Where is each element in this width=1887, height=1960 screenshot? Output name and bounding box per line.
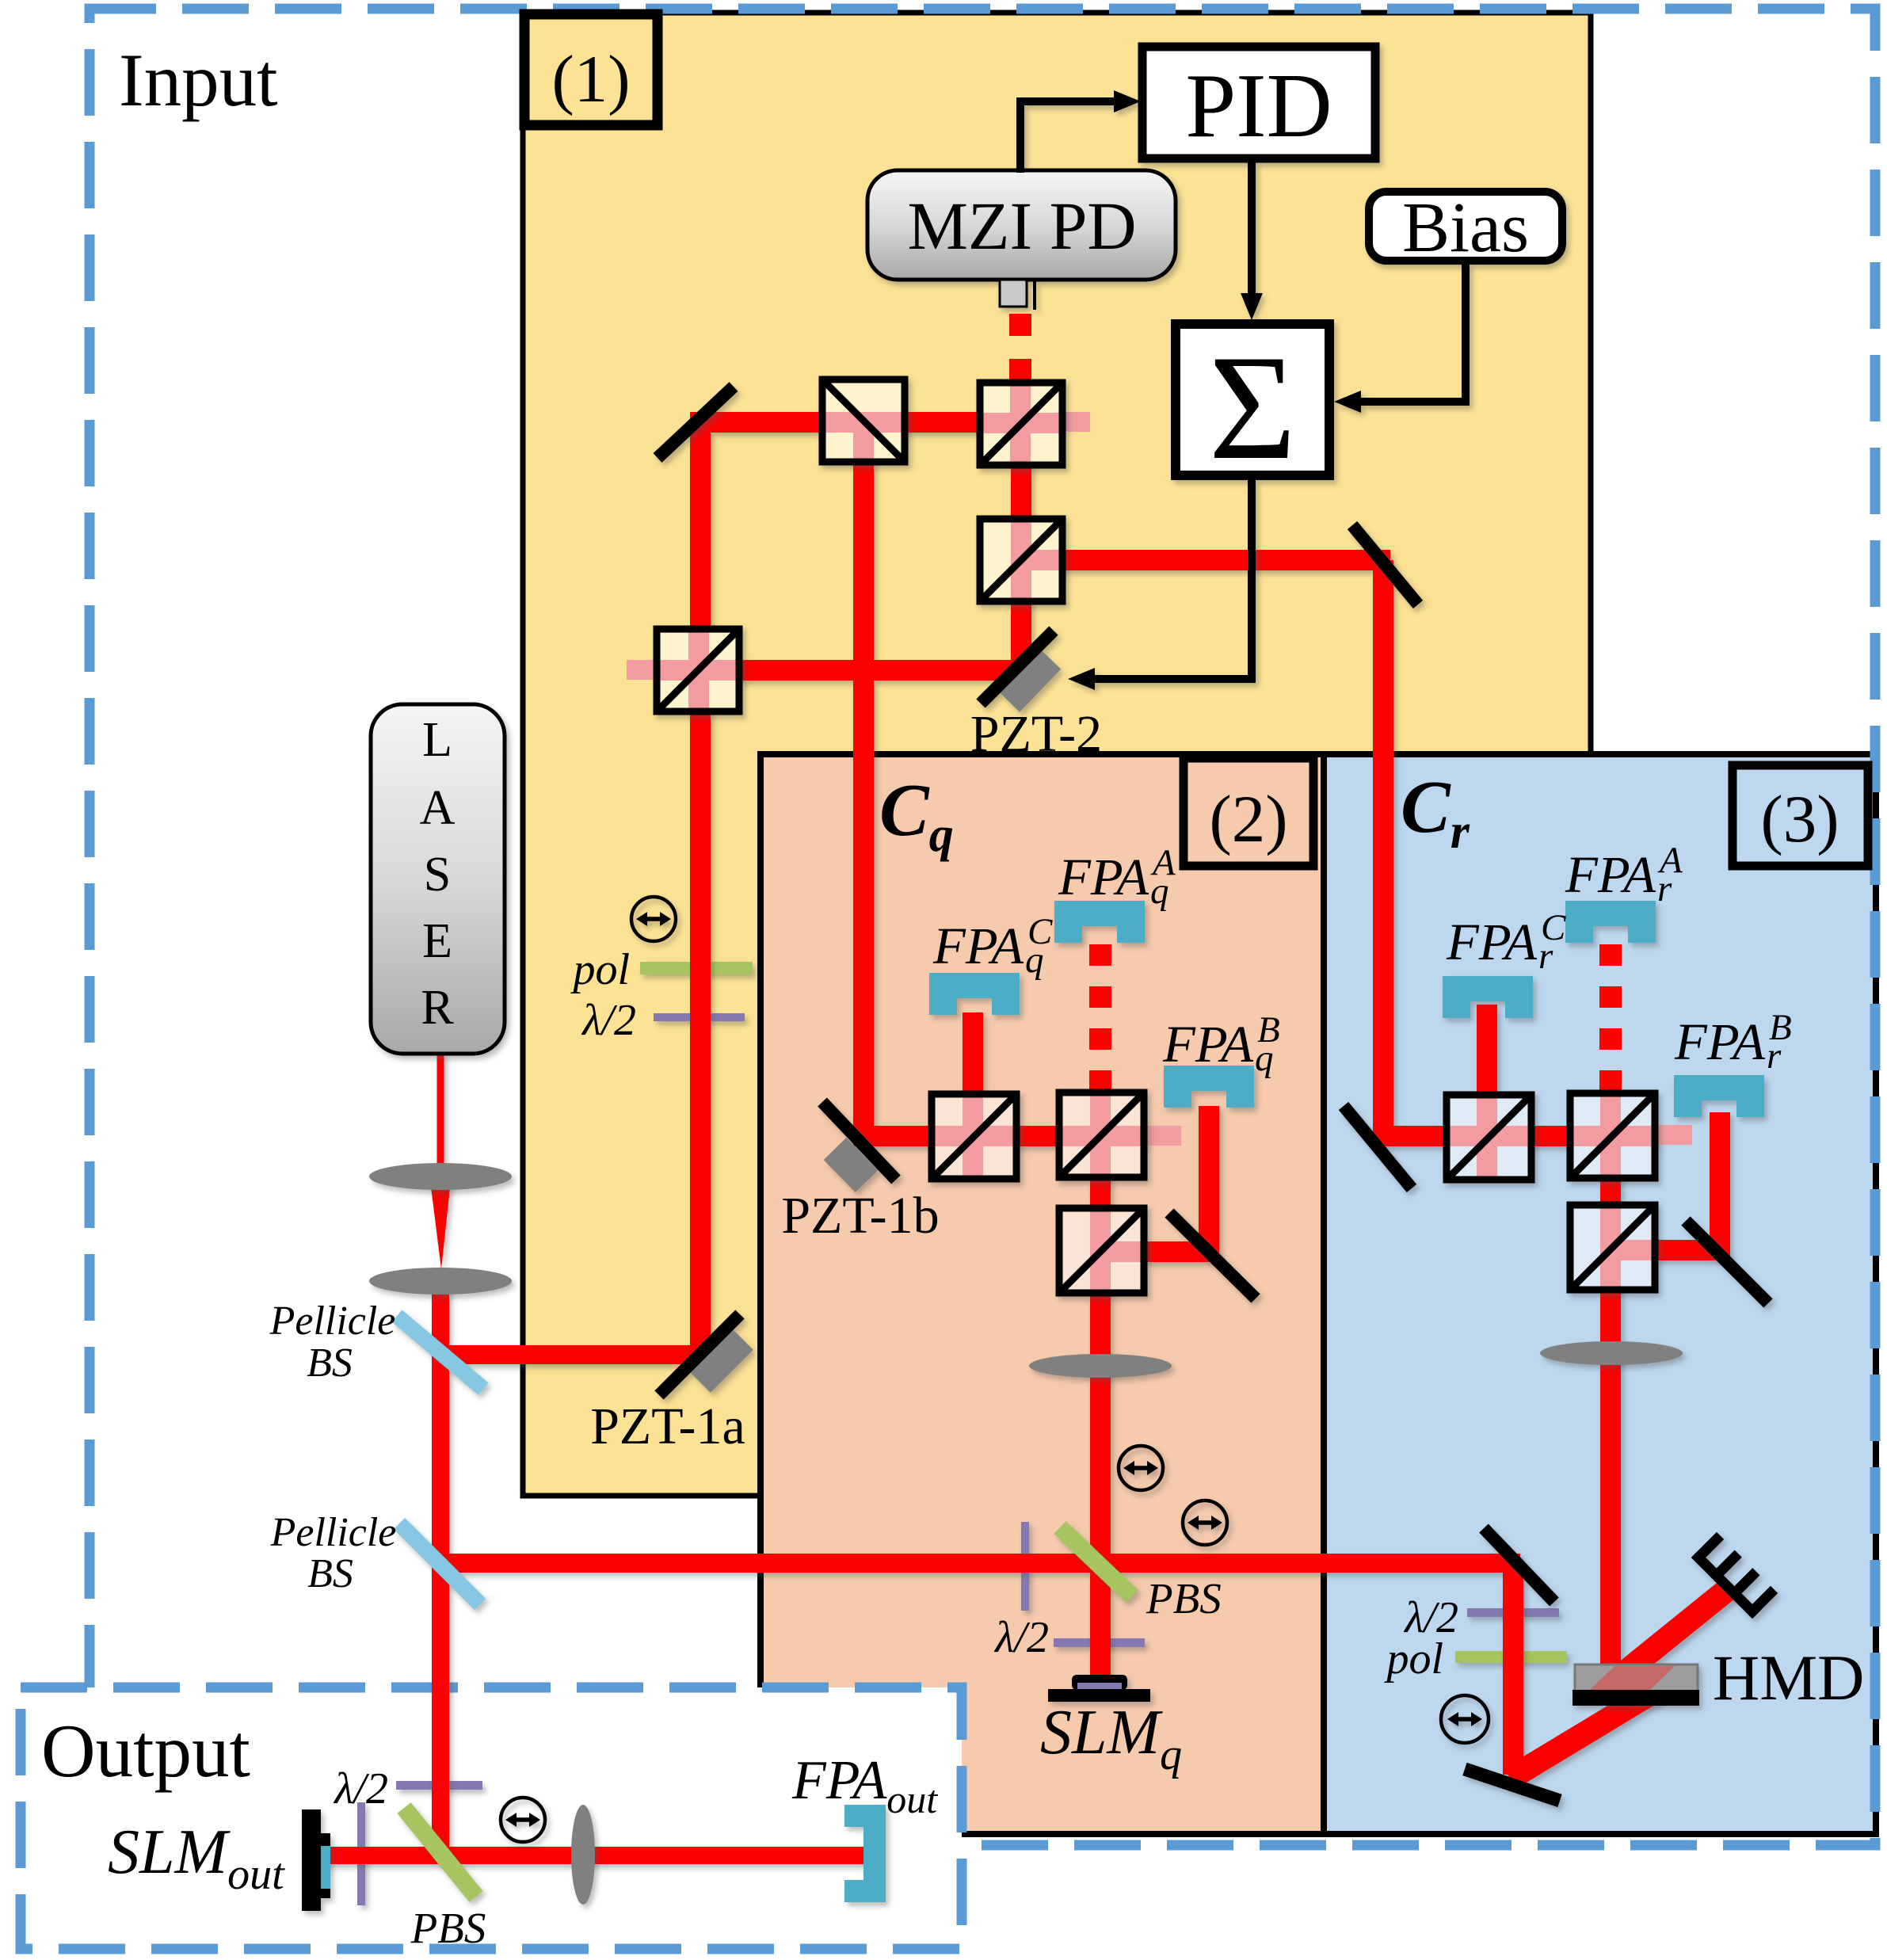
FPA_q^A detector — [1054, 901, 1145, 943]
beamsplitter cube BS2 body — [980, 383, 1062, 465]
polarizer pol (region 1) — [640, 962, 753, 974]
beam mirror M1 to BS2 horizontal — [696, 412, 1030, 433]
half-wave plate λ/2 vertical (region 2) — [1021, 1522, 1029, 1611]
half-wave plate λ/2 horizontal (output) — [396, 1781, 482, 1790]
FPA_r^B detector — [1674, 1075, 1764, 1117]
beam mirror Mq to BS_q3 — [1143, 1241, 1217, 1262]
FPA_out detector — [844, 1805, 886, 1902]
beam bottom mirror to HMD diagonal — [1510, 1687, 1662, 1779]
svg-text:(3): (3) — [1760, 782, 1839, 856]
Output white box — [21, 1687, 962, 1949]
svg-text:FPA: FPA — [1565, 846, 1656, 904]
beamsplitter cube BS_r3 body — [1570, 1205, 1655, 1290]
mirror M1 (region 1 top-left) — [658, 387, 734, 458]
polarization symbol (output) — [501, 1798, 545, 1842]
svg-text:PZT-1a: PZT-1a — [590, 1398, 745, 1455]
pink beam inside BS2 — [980, 413, 1062, 433]
beam mirror Mr to BS_r3 — [1654, 1240, 1728, 1260]
lens output — [571, 1805, 595, 1905]
region (3) blue background — [1324, 754, 1876, 1834]
pink beam inside BS_r1 — [1477, 1095, 1497, 1180]
svg-text:(2): (2) — [1209, 782, 1287, 856]
dashed beam FPA_rA to BS_r2 — [1599, 944, 1622, 1093]
pink beam inside BS1 — [853, 421, 874, 462]
wire Bias to Sigma — [1359, 263, 1466, 402]
SLM_out inner plate — [318, 1833, 330, 1898]
lens L2 — [369, 1268, 512, 1295]
SLM_q purple strip — [1077, 1683, 1122, 1689]
pink beam inside BS3 — [1021, 550, 1062, 570]
svg-text:r: r — [1767, 1035, 1782, 1077]
beam FPA_rB down to mirror Mr — [1710, 1112, 1730, 1258]
half-wave plate λ/2 (region 1) — [654, 1013, 745, 1021]
beamsplitter cube BS_q1 body — [932, 1094, 1016, 1179]
HMD red overlay — [1589, 1666, 1675, 1691]
MZI PD photodiode stub — [1000, 280, 1027, 307]
beam BS4 to PZT-2 horizontal — [699, 660, 1026, 681]
beam laser column below lens L2 — [432, 1277, 449, 1859]
half-wave plate λ/2 horizontal (region 2) — [1054, 1638, 1145, 1647]
svg-text:S: S — [424, 848, 451, 902]
svg-text:FPA: FPA — [1446, 913, 1538, 971]
PZT-1b mirror pad — [835, 1149, 867, 1181]
polarization symbol (region 1) — [631, 897, 676, 941]
HMD glass — [1575, 1664, 1698, 1691]
beamsplitter cube BS3 diagonal and border — [983, 522, 1059, 598]
beam FPA_rC down to BS_r1 — [1477, 1005, 1497, 1136]
beam-block comb (grating) — [1698, 1539, 1771, 1611]
beamsplitter cube BS_q1 diagonal and border — [935, 1097, 1013, 1176]
pink stub right of BS_q2 — [1143, 1126, 1181, 1146]
FPA_q^C detector — [929, 973, 1020, 1015]
beamsplitter cube BS_r2 body — [1570, 1093, 1655, 1178]
beamsplitter cube BS_q3 body — [1059, 1208, 1144, 1293]
pink beam inside BS4 — [657, 660, 739, 681]
pink beam inside BS_q3 — [1100, 1241, 1144, 1262]
PZT-2 mirror pad — [1008, 658, 1049, 700]
PBS (output) — [404, 1808, 476, 1897]
lens region 2 — [1029, 1354, 1172, 1378]
laser focusing cone — [430, 1180, 451, 1269]
pink beam inside BS_q2 — [1090, 1092, 1111, 1177]
polarizer pol (region 3) — [1455, 1651, 1567, 1663]
mirror M3 (region 3 left) — [1344, 1106, 1412, 1188]
FPA_r^C detector — [1443, 976, 1533, 1018]
pink beam inside BS_r2 — [1570, 1126, 1655, 1146]
pink beam inside BS2 — [1010, 383, 1031, 465]
svg-text:Pellicle: Pellicle — [269, 1298, 396, 1344]
svg-text:λ/2: λ/2 — [993, 1613, 1049, 1662]
LASER box — [371, 704, 505, 1054]
region (2) orange background — [761, 754, 1324, 1834]
half-wave plate λ/2 vertical (output) — [357, 1802, 365, 1905]
svg-text:q: q — [1255, 1038, 1274, 1079]
PZT-1a mirror pad — [699, 1338, 741, 1381]
svg-text:PBS: PBS — [410, 1904, 486, 1952]
svg-text:Output: Output — [41, 1709, 250, 1793]
pink beam inside BS_q3 — [1090, 1208, 1111, 1293]
polarization symbol (region 2 vertical beam) — [1119, 1446, 1163, 1490]
svg-text:FPA: FPA — [1674, 1013, 1766, 1071]
FPA_r^A detector — [1565, 901, 1656, 943]
beam BS2 down to BS3 to PZT-2 — [1011, 423, 1031, 677]
beamsplitter cube BS_r1 diagonal and border — [1450, 1098, 1528, 1176]
beamsplitter cube BS1 body — [822, 379, 905, 462]
laser output thin beam — [437, 1052, 444, 1182]
dashed beam MZI PD to BS2 — [1009, 314, 1031, 382]
beam PZT-1a up to mirror M1 — [690, 412, 711, 1365]
beam BS3 to mirror M2 horizontal — [1021, 550, 1390, 570]
pink stub right of BS_r2 — [1654, 1125, 1692, 1145]
PZT-1b mirror — [822, 1102, 896, 1180]
pink beam inside BS_q1 — [932, 1126, 1016, 1146]
mirror Mq (region 2 right) — [1169, 1213, 1256, 1298]
beamsplitter cube BS1 diagonal and border — [825, 383, 902, 459]
SLM_out outer plate — [302, 1809, 321, 1911]
svg-text:Σ: Σ — [1209, 325, 1297, 491]
lens L1 — [369, 1163, 512, 1190]
HMD base bar — [1572, 1690, 1699, 1706]
beam FPA_qB down to mirror Mq — [1199, 1106, 1219, 1260]
pink stub right of BS2 — [1062, 412, 1090, 432]
beamsplitter cube BS4 body — [657, 629, 739, 711]
svg-text:λ/2: λ/2 — [581, 996, 636, 1045]
label box (1) — [524, 14, 658, 125]
beamsplitter cube BS4 diagonal and border — [660, 632, 736, 708]
Bias box — [1369, 192, 1562, 261]
svg-text:L: L — [422, 713, 452, 767]
PZT-2 mirror — [981, 631, 1054, 704]
beam BS1 down into region 2 (to PZT-1b) — [853, 422, 874, 1146]
svg-text:PZT-2: PZT-2 — [970, 705, 1102, 763]
svg-text:HMD: HMD — [1713, 1642, 1864, 1714]
SLM_q chip — [1072, 1675, 1127, 1690]
pink beam inside BS1 — [822, 412, 905, 433]
svg-text:r: r — [1538, 936, 1553, 977]
svg-text:Input: Input — [119, 38, 278, 122]
PZT-1a mirror — [659, 1314, 740, 1395]
svg-text:BS: BS — [307, 1551, 353, 1596]
pink stub left of BS4 — [627, 660, 657, 680]
pink beam inside BS_r3 — [1611, 1240, 1655, 1260]
svg-text:Pellicle: Pellicle — [270, 1510, 397, 1555]
svg-text:FPA: FPA — [932, 917, 1024, 975]
bottom tilted mirror (region 3) — [1465, 1769, 1560, 1801]
beam mirror M2 down into region 3 — [1373, 560, 1393, 1146]
PID box — [1142, 47, 1375, 158]
beam BS_r2 down through BS_r3 to HMD — [1600, 1135, 1621, 1670]
label box (3) — [1733, 765, 1868, 866]
beam HMD to comb diagonal — [1621, 1586, 1732, 1676]
svg-text:q: q — [1150, 871, 1169, 912]
svg-text:pol: pol — [1383, 1634, 1443, 1684]
svg-text:PBS: PBS — [1146, 1574, 1222, 1623]
pink beam inside BS4 — [688, 629, 709, 711]
svg-text:q: q — [1025, 940, 1044, 981]
svg-text:MZI PD: MZI PD — [907, 188, 1136, 264]
beam mirror down to bottom mirror — [1503, 1563, 1523, 1775]
svg-text:PID: PID — [1185, 55, 1332, 156]
svg-text:A: A — [420, 781, 456, 835]
region (1) yellow background — [523, 13, 1591, 1496]
svg-text:(1): (1) — [551, 42, 630, 116]
wire PID to Sigma — [1248, 161, 1256, 301]
beamsplitter cube BS3 body — [980, 519, 1062, 601]
svg-text:λ/2: λ/2 — [333, 1764, 388, 1813]
pink beam inside BS_r3 — [1600, 1205, 1621, 1290]
SLM_q base — [1048, 1689, 1150, 1702]
beamsplitter cube BS_q2 diagonal and border — [1062, 1096, 1141, 1174]
polarization symbol (region 2 near PBS) — [1183, 1501, 1227, 1545]
mirror M2 (region 1 top-right) — [1352, 525, 1418, 604]
wire MZI PD to PID — [1020, 101, 1115, 173]
beam pellicle BS1 to PZT-1a — [440, 1345, 709, 1364]
svg-text:E: E — [422, 914, 452, 968]
mirror region 3 (main beam down) — [1484, 1528, 1554, 1602]
beam SLM_out to FPA_out horizontal — [320, 1847, 865, 1864]
pink beam inside BS_r2 — [1600, 1093, 1621, 1178]
svg-text:Bias: Bias — [1402, 189, 1529, 267]
dashed beam FPA_qA to BS_q2 — [1089, 944, 1111, 1093]
beamsplitter cube BS2 diagonal and border — [983, 386, 1059, 462]
wire Sigma to PZT-2 — [1093, 478, 1252, 679]
svg-text:pol: pol — [570, 945, 630, 994]
Sigma box — [1176, 324, 1329, 475]
svg-text:PZT-1b: PZT-1b — [781, 1187, 939, 1245]
beamsplitter cube BS_r3 diagonal and border — [1573, 1208, 1652, 1287]
svg-text:BS: BS — [307, 1340, 353, 1386]
svg-text:R: R — [421, 981, 454, 1035]
pink beam inside BS_q1 — [963, 1094, 983, 1179]
beamsplitter cube BS_r2 diagonal and border — [1573, 1096, 1652, 1175]
PBS (region 2) — [1060, 1527, 1132, 1596]
svg-text:FPA: FPA — [1162, 1016, 1254, 1073]
pellicle BS 2 — [399, 1523, 480, 1604]
svg-text:FPA: FPA — [1058, 848, 1149, 906]
FPA_q^B detector — [1164, 1066, 1254, 1108]
label box (2) — [1184, 758, 1313, 866]
beam PZT-1b to BS_q2 horizontal — [863, 1126, 1145, 1146]
lens region 3 — [1540, 1341, 1683, 1365]
beam mirror M3 to BS_r2 horizontal — [1377, 1126, 1656, 1146]
beamsplitter cube BS_r1 body — [1447, 1095, 1531, 1180]
pink beam inside BS_q2 — [1059, 1126, 1144, 1146]
beamsplitter cube BS_q3 diagonal and border — [1062, 1211, 1141, 1290]
beam BS_q2 down through BS_q3 to SLM_q — [1090, 1135, 1111, 1680]
svg-text:r: r — [1657, 868, 1672, 909]
Output dashed border — [21, 1687, 962, 1949]
mirror Mr (region 3 right) — [1686, 1221, 1768, 1303]
pink beam inside BS_r1 — [1447, 1126, 1531, 1146]
half-wave plate λ/2 (region 3) — [1467, 1608, 1559, 1617]
pink beam inside BS3 — [1011, 519, 1031, 601]
beam pellicle BS2 main horizontal to region 3 — [440, 1554, 1520, 1573]
SLM_out cyan strip — [321, 1846, 330, 1889]
beamsplitter cube BS_q2 body — [1059, 1092, 1144, 1177]
polarization symbol (region 3) — [1441, 1695, 1489, 1743]
beam FPA_qC down to BS_q1 — [963, 1012, 983, 1136]
MZI PD box — [867, 170, 1176, 280]
pellicle BS 1 — [397, 1316, 483, 1389]
